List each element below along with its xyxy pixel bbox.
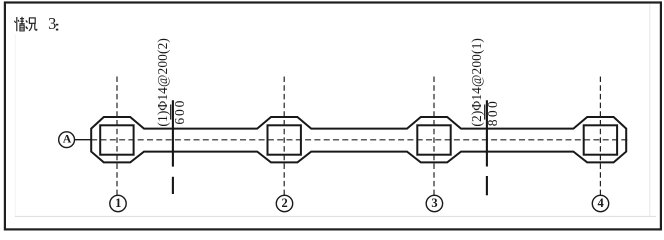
- faint table cell right line: [649, 4, 651, 216]
- svg-text:(2)Φ14@200(1): (2)Φ14@200(1): [469, 38, 484, 127]
- column 1 inner square: [100, 125, 133, 154]
- axis 4 vertical dashed line: [599, 77, 601, 196]
- svg-text:4: 4: [597, 196, 604, 210]
- svg-text:2: 2: [281, 196, 287, 210]
- faint table cell left line: [14, 34, 16, 216]
- axis 2 vertical dashed line: [283, 77, 285, 196]
- svg-text:3: 3: [48, 14, 56, 33]
- column 4 inner square: [584, 125, 617, 154]
- rebar callout 1 text (1)Φ14@200(2): [155, 38, 170, 127]
- axis 2 bubble: [276, 195, 292, 211]
- 情 left radical: [16, 17, 18, 31]
- title text: 情况 3: (hanzi drawn as strokes): [14, 17, 37, 31]
- svg-text:600: 600: [172, 100, 187, 124]
- svg-text:3: 3: [431, 196, 437, 210]
- axis 1 bubble: [110, 195, 126, 211]
- axis 3 bubble: [426, 195, 442, 211]
- rebar callout 2 text (2)Φ14@200(1): [469, 38, 484, 127]
- svg-text:A: A: [63, 132, 72, 146]
- svg-text:1: 1: [115, 196, 121, 210]
- title text: 3:: [48, 14, 58, 33]
- section line 1 (rebar extent line, upper solid): [172, 100, 174, 194]
- section line 2 (rebar extent line, upper solid): [486, 100, 488, 195]
- axis A horizontal centerline (dashed): [91, 139, 629, 141]
- axis 3 vertical dashed line: [433, 77, 435, 196]
- rebar callout 1 underline under Φ1: [170, 105, 172, 120]
- 况 left radical: [26, 21, 28, 23]
- column 3 inner square: [417, 125, 450, 154]
- svg-text:(1)Φ14@200(2): (1)Φ14@200(2): [155, 38, 170, 127]
- faint table cell bottom line: [15, 215, 656, 217]
- axis 1 vertical dashed line: [116, 77, 118, 196]
- column 2 inner square: [268, 125, 301, 154]
- rebar callout 2 underline under Φ1: [484, 105, 486, 120]
- axis A circle: [59, 132, 75, 148]
- 情 right part 青: [20, 18, 24, 20]
- wall and pilaster outline: [91, 117, 626, 162]
- dimension text 800: [485, 101, 500, 126]
- svg-text:800: 800: [485, 101, 500, 126]
- axis 4 bubble: [592, 195, 608, 211]
- 况 right part 兄: [29, 18, 35, 23]
- axis A leader line: [75, 139, 92, 141]
- dimension text 600: [172, 100, 187, 124]
